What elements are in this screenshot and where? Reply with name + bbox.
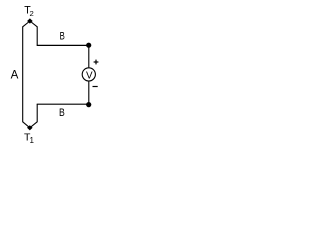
wire: bottom horizontal conductor B <box>37 103 89 105</box>
junction node (top right dot) <box>86 43 91 48</box>
polarity label + <box>94 60 99 65</box>
svg-text:B: B <box>60 31 65 43</box>
voltmeter V1 <box>82 68 95 82</box>
wire: from voltmeter down to bottom node <box>88 81 90 104</box>
junction node (bottom right dot) <box>86 102 91 107</box>
wire: left slant from wire A to T1 junction <box>23 122 30 128</box>
svg-text:2: 2 <box>30 9 34 18</box>
wire: top horizontal conductor B <box>37 44 89 46</box>
wire: right slant from T2 junction to inner vertical <box>30 21 37 27</box>
wire: inner right vertical (bottom segment, conductor B) <box>36 104 38 122</box>
wire: inner right vertical (top segment, conductor B) <box>36 26 38 45</box>
wire: from top node down to voltmeter <box>88 45 90 67</box>
wire: left slant from T2 junction to wire A <box>23 21 30 27</box>
label T1 <box>24 132 35 146</box>
svg-text:A: A <box>11 69 19 82</box>
label T2 <box>24 4 33 18</box>
wire A (left vertical conductor) <box>22 26 24 122</box>
svg-text:1: 1 <box>30 136 35 145</box>
thermocouple junction T1 (diamond) <box>27 125 33 130</box>
svg-text:V: V <box>86 70 93 81</box>
svg-text:B: B <box>59 107 65 119</box>
wire: right slant from inner vertical to T1 junction <box>30 122 37 128</box>
thermocouple junction T2 (diamond) <box>27 18 33 23</box>
polarity label - <box>93 86 98 88</box>
